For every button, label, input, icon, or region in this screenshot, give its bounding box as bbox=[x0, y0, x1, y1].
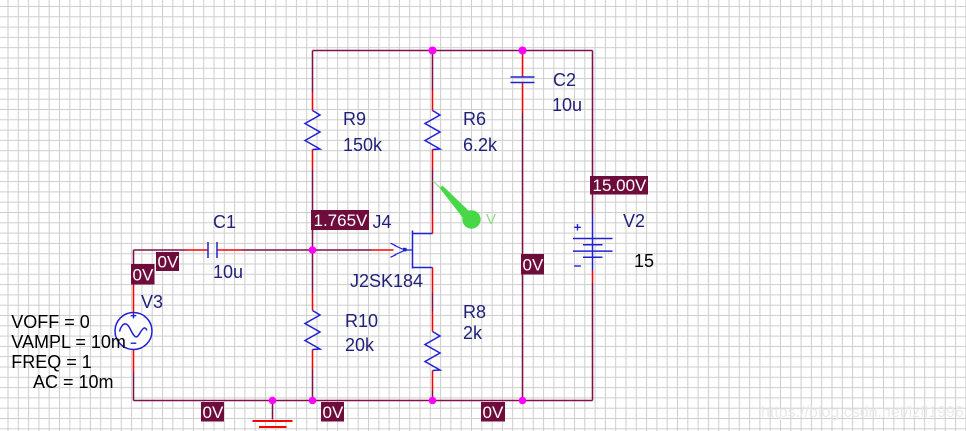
svg-text:V: V bbox=[486, 211, 496, 228]
svg-text:15: 15 bbox=[634, 251, 654, 271]
svg-text:2k: 2k bbox=[463, 323, 483, 343]
svg-text:R9: R9 bbox=[343, 109, 366, 129]
svg-text:R8: R8 bbox=[463, 302, 486, 322]
svg-text:VOFF = 0: VOFF = 0 bbox=[11, 312, 90, 332]
svg-text:FREQ = 1: FREQ = 1 bbox=[11, 352, 92, 372]
svg-text:0V: 0V bbox=[158, 253, 179, 272]
svg-text:0V: 0V bbox=[483, 403, 504, 422]
svg-text:VAMPL = 10m: VAMPL = 10m bbox=[11, 332, 126, 352]
svg-text:AC = 10m: AC = 10m bbox=[33, 372, 114, 392]
svg-text:0V: 0V bbox=[323, 403, 344, 422]
svg-text:J2SK184: J2SK184 bbox=[350, 271, 423, 291]
svg-text:J4: J4 bbox=[373, 212, 392, 232]
svg-text:0V: 0V bbox=[523, 256, 544, 275]
svg-text:https://blog.csdn.net/lzfl1996: https://blog.csdn.net/lzfl1996 bbox=[761, 404, 964, 421]
svg-text:0V: 0V bbox=[203, 403, 224, 422]
svg-text:R6: R6 bbox=[463, 109, 486, 129]
svg-text:10u: 10u bbox=[213, 262, 243, 282]
svg-text:6.2k: 6.2k bbox=[463, 135, 498, 155]
svg-text:150k: 150k bbox=[343, 135, 383, 155]
svg-text:C2: C2 bbox=[553, 70, 576, 90]
svg-text:R10: R10 bbox=[345, 311, 378, 331]
svg-text:1.765V: 1.765V bbox=[314, 211, 369, 230]
svg-text:C1: C1 bbox=[213, 212, 236, 232]
svg-text:15.00V: 15.00V bbox=[593, 176, 648, 195]
svg-text:20k: 20k bbox=[345, 335, 375, 355]
svg-text:0V: 0V bbox=[133, 266, 154, 285]
svg-text:10u: 10u bbox=[552, 95, 582, 115]
svg-text:V2: V2 bbox=[623, 211, 645, 231]
svg-text:V3: V3 bbox=[141, 292, 163, 312]
